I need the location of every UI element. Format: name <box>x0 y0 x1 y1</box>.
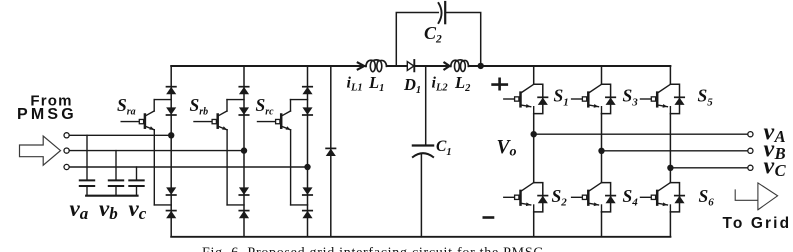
node inverter leg1 midpoint <box>531 131 537 137</box>
wire inverter leg 1 <box>533 66 535 237</box>
minus sign dc bus <box>484 216 493 219</box>
svg-text:S6: S6 <box>699 186 715 209</box>
svg-text:Srb: Srb <box>190 95 209 117</box>
svg-text:Src: Src <box>256 95 275 117</box>
svg-text:PMSG: PMSG <box>17 106 77 123</box>
node phase c junction <box>304 164 310 170</box>
svg-text:Fig. 6. Proposed grid interfac: Fig. 6. Proposed grid interfacing circui… <box>202 246 544 252</box>
svg-text:L1: L1 <box>368 73 384 94</box>
svg-text:To Grid: To Grid <box>723 215 792 232</box>
transistor S3 <box>572 84 616 113</box>
svg-text:D1: D1 <box>403 75 421 96</box>
capacitor C1 dc-link <box>413 66 433 237</box>
svg-text:S1: S1 <box>554 86 569 109</box>
svg-text:S4: S4 <box>623 186 639 209</box>
wire capacitor common <box>86 195 137 197</box>
diode freewheel on riser <box>326 148 335 155</box>
svg-text:iL1: iL1 <box>347 74 363 93</box>
capacitor vb filter <box>109 151 123 196</box>
svg-text:S5: S5 <box>698 86 714 109</box>
transistor S1 <box>504 84 548 113</box>
transistor S5 <box>641 84 685 113</box>
wire dc-link riser <box>330 66 332 237</box>
svg-text:L2: L2 <box>454 73 471 94</box>
svg-text:Vo: Vo <box>497 137 517 160</box>
node phase b input terminal <box>64 148 69 153</box>
svg-text:va: va <box>70 196 89 223</box>
capacitor va filter <box>80 135 94 195</box>
node phase a input terminal <box>64 133 69 138</box>
transistor S6 <box>641 183 685 212</box>
svg-text:S3: S3 <box>623 86 639 109</box>
capacitor C2 snubber loop <box>396 2 480 66</box>
node output terminal vB <box>748 148 753 153</box>
transistor S2 <box>504 183 548 212</box>
diode D1 <box>407 60 414 71</box>
svg-text:vb: vb <box>99 196 118 223</box>
node inverter leg2 midpoint <box>598 148 604 154</box>
wire output phase B <box>602 150 748 152</box>
plus sign dc bus <box>493 79 507 89</box>
node phase a junction <box>168 132 174 138</box>
node phase b junction <box>241 147 247 153</box>
arrow From PMSG <box>20 136 61 165</box>
inductor L2 <box>451 60 469 72</box>
current arrow iL1 <box>358 63 364 70</box>
current arrow iL2 <box>444 63 449 70</box>
arrow To Grid <box>735 183 777 210</box>
transistor Sra rectifier leg a <box>121 66 176 237</box>
wire phase c <box>69 166 307 168</box>
wire bottom DC bus <box>171 236 670 238</box>
svg-text:Sra: Sra <box>117 95 136 117</box>
node boost output junction <box>478 63 484 69</box>
node output terminal vA <box>748 132 753 137</box>
svg-text:iL2: iL2 <box>432 74 449 93</box>
wire top DC bus <box>171 65 670 67</box>
wire inverter leg 2 <box>601 66 603 237</box>
capacitor vc filter <box>129 167 143 195</box>
transistor S4 <box>572 183 616 212</box>
node inverter leg3 midpoint <box>667 165 673 171</box>
svg-text:S2: S2 <box>552 186 568 209</box>
node output terminal vC <box>748 165 753 170</box>
transistor Src rectifier leg c <box>258 66 313 237</box>
transistor Srb rectifier leg b <box>194 66 249 237</box>
node phase c input terminal <box>64 164 69 169</box>
wire phase b <box>69 150 244 152</box>
wire phase a <box>69 134 171 136</box>
wire output phase C <box>670 167 747 169</box>
svg-text:C2: C2 <box>424 23 442 46</box>
wire output phase A <box>534 133 748 135</box>
svg-text:C1: C1 <box>436 138 452 158</box>
svg-text:vc: vc <box>129 196 147 223</box>
wire inverter leg 3 <box>669 66 671 237</box>
inductor L1 <box>366 60 387 72</box>
